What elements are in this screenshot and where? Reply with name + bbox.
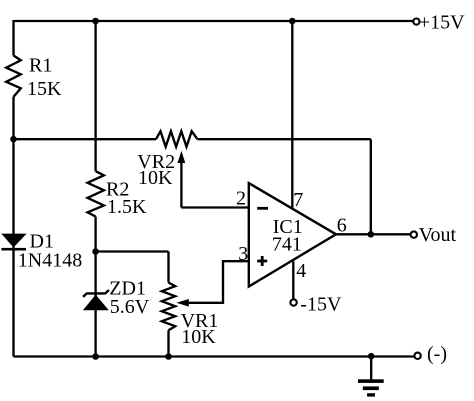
wire top rail <box>14 20 414 22</box>
terminal (-) <box>414 353 420 359</box>
junction node bottom VR1 <box>165 353 172 360</box>
op-amp plus input sign <box>257 256 267 266</box>
zener bar ZD1 <box>83 290 109 297</box>
ground stub <box>370 356 372 379</box>
wire pin 2 <box>181 206 248 208</box>
resistor R2 <box>88 171 104 216</box>
terminal +15V <box>413 19 419 25</box>
svg-text:2: 2 <box>236 188 246 210</box>
junction node output feedback <box>368 231 375 238</box>
wire node row <box>14 138 157 140</box>
potentiometer VR2 <box>156 131 197 147</box>
svg-text:10K: 10K <box>181 326 216 348</box>
wire second vertical lower <box>94 217 96 357</box>
svg-text:-15V: -15V <box>300 293 342 315</box>
junction node top pin7 <box>289 18 296 25</box>
junction node bottom ground <box>368 353 375 360</box>
wire VR2 wiper <box>180 161 182 208</box>
svg-text:3: 3 <box>238 243 248 265</box>
svg-text:+15V: +15V <box>419 12 465 34</box>
svg-text:R1: R1 <box>29 54 52 76</box>
junction node left rail row <box>10 136 17 143</box>
op-amp minus input sign <box>257 207 268 210</box>
diode D1 <box>1 234 26 248</box>
svg-text:6: 6 <box>337 215 347 237</box>
VR2 wiper arrowhead <box>178 151 186 163</box>
zener diode ZD1 <box>83 295 109 311</box>
wire second vertical upper <box>94 21 96 171</box>
junction node ZD1 top <box>92 248 99 255</box>
svg-text:1N4148: 1N4148 <box>18 250 82 272</box>
wire VR2 to feedback corner <box>197 138 370 140</box>
svg-text:5.6V: 5.6V <box>110 296 150 318</box>
VR1 wiper arrowhead <box>176 299 188 307</box>
svg-text:15K: 15K <box>27 78 62 100</box>
wire pin 7 <box>291 21 293 208</box>
resistor R1 <box>6 56 21 97</box>
wire VR1 bottom lead <box>167 330 169 356</box>
wire output pin 6 <box>336 233 411 235</box>
wire pin 4 <box>292 261 294 299</box>
svg-text:741: 741 <box>272 234 302 256</box>
wire VR1 wiper to pin 3 <box>188 261 249 303</box>
wire VR1 top lead <box>167 252 169 283</box>
wire bottom rail <box>14 355 415 357</box>
ground bar 3 <box>367 393 375 396</box>
svg-text:10K: 10K <box>138 167 173 189</box>
svg-text:1.5K: 1.5K <box>107 196 147 218</box>
svg-text:7: 7 <box>293 189 303 211</box>
junction node top R2 <box>92 18 99 25</box>
junction node bottom R2 <box>92 353 99 360</box>
svg-text:4: 4 <box>296 260 306 282</box>
svg-text:(-): (-) <box>427 343 447 365</box>
ground bar 2 <box>363 386 379 390</box>
diode D1 cathode bar <box>1 248 26 251</box>
op-amp IC1 triangle <box>249 183 336 286</box>
potentiometer VR1 <box>162 283 175 331</box>
wire feedback vertical <box>370 139 372 234</box>
svg-text:Vout: Vout <box>419 224 457 246</box>
terminal Vout <box>411 231 417 237</box>
terminal -15V <box>290 299 296 305</box>
ground bar 1 <box>358 379 384 383</box>
wire left rail lower <box>12 97 14 357</box>
wire left rail upper <box>12 20 14 56</box>
wire ZD1 node to VR1 top <box>96 250 169 252</box>
